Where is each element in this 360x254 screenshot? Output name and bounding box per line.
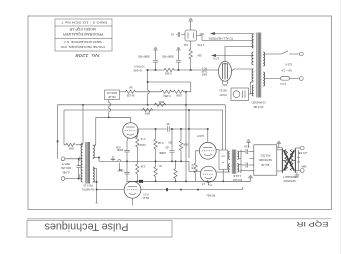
svg-text:115 V: 115 V (285, 63, 292, 67)
border frame of schematic sheet (28, 16, 332, 210)
svg-text:B+245: B+245 (133, 69, 141, 73)
resistor R2b (172, 90, 184, 93)
ground above network box (277, 141, 282, 147)
V3 plate wire to T3 (216, 171, 229, 173)
wire C5 onward to V2 grid (170, 128, 208, 130)
svg-text:6X4: 6X4 (222, 83, 227, 87)
svg-text:Pulse Techniques: Pulse Techniques (44, 221, 128, 233)
wire bus to R9 (155, 161, 157, 165)
T2 secondary winding group 1 (263, 52, 264, 66)
vertical to input transformer primary top (82, 105, 84, 144)
svg-text:240K: 240K (144, 112, 150, 115)
svg-text:25MF: 25MF (116, 148, 123, 151)
stub below hop (118, 163, 120, 171)
svg-text:4.5H: 4.5H (244, 144, 249, 147)
svg-text:CHANGED: CHANGED (252, 100, 266, 104)
resistor R1 (124, 90, 136, 93)
lattice attenuator right bar (294, 148, 296, 172)
V3 grid dashed (203, 173, 214, 175)
svg-text:.1M: .1M (119, 168, 123, 170)
svg-text:BRIDGED-T: BRIDGED-T (282, 175, 296, 178)
resistor R3 in upper feedback wire (154, 103, 167, 106)
svg-text:12AX7: 12AX7 (138, 143, 146, 146)
faint scanned page edge (340, 0, 342, 254)
svg-text:PE-W3u: PE-W3u (206, 193, 215, 195)
wire J1 to T1 primary (65, 158, 83, 160)
wire network box to lattice (upper) (277, 149, 283, 151)
V2 plate bar (203, 146, 212, 148)
V4 top pin wire to transformer (225, 47, 252, 62)
B+ rail wire (146, 69, 219, 71)
V1 plate pin down to resistor chain (134, 129, 137, 137)
T3 secondary bus (239, 150, 241, 174)
wire resistor to B+ rail (190, 60, 192, 70)
wire network box to lattice top (277, 147, 283, 149)
interstage transformer T3 core (232, 150, 236, 174)
svg-text:7H: 7H (221, 161, 224, 163)
line switch SW1 wire (265, 53, 300, 55)
T2 secondary winding group 2 (263, 72, 264, 86)
resistor R20 vertical (189, 48, 192, 60)
resistor R10 vertical (180, 129, 182, 140)
cathode bypass capacitor C3 (124, 150, 129, 152)
wire tube to transformer plate tap (232, 69, 252, 71)
resistor R21 in B+ rail (163, 68, 175, 71)
V1b cathode (129, 193, 137, 194)
svg-text:5600: 5600 (182, 143, 188, 146)
grid wire to V1 (96, 117, 131, 123)
T1 primary winding (81, 144, 82, 182)
svg-text:MODEL EQP-1R: MODEL EQP-1R (69, 27, 96, 31)
ground below network box (248, 175, 253, 181)
svg-text:6.3 V: 6.3 V (143, 193, 149, 195)
line terminal circle (switch side) (299, 52, 303, 56)
power transformer T2 core (257, 33, 261, 98)
svg-text:(LAB): (LAB) (62, 171, 69, 175)
svg-text:0.25M: 0.25M (164, 94, 171, 97)
svg-text:NE-51: NE-51 (219, 89, 227, 93)
V2 grid dashed (202, 150, 214, 152)
input terminal J1 (61, 157, 65, 161)
electrolytic capacitor C6 (171, 129, 173, 150)
pilot lamp assembly box (231, 88, 249, 101)
svg-text:3.3K: 3.3K (140, 165, 145, 168)
T1 lower tap to shield vertical (94, 181, 96, 183)
V4 internal plates (222, 63, 227, 80)
lattice series resistor right (290, 150, 293, 171)
tube V1 envelope (123, 123, 139, 139)
svg-text:1M: 1M (129, 85, 132, 88)
wire R2b to right bus (184, 91, 190, 93)
T3 primary winding upper (228, 151, 229, 159)
heater supply wire with arrow (top) (211, 33, 252, 35)
tube V2 envelope (199, 142, 216, 159)
svg-text:EQP IR: EQP IR (296, 220, 328, 227)
svg-text:X40F: X40F (201, 73, 207, 75)
coupling capacitor C5 plates (167, 126, 169, 131)
svg-text:2 5TA: 2 5TA (197, 43, 204, 47)
wire network box to lattice (lower) (277, 170, 283, 172)
feedback wire upper (long) (58, 104, 226, 106)
T3 secondary winding upper (237, 151, 238, 159)
output terminal J4 (300, 169, 304, 173)
ground above rectifier box (188, 19, 193, 23)
wire T2 to pilot lamp box (249, 82, 254, 94)
tube V1b envelope (124, 181, 141, 198)
svg-text:100MF: 100MF (158, 151, 166, 153)
V1b grid wire to shield line (97, 189, 125, 191)
pilot lamp bulb (233, 91, 240, 98)
svg-text:10M: 10M (116, 146, 121, 148)
wire C8 to network box (249, 164, 254, 166)
left feedback loop vertical (inner) (63, 110, 65, 145)
T3 secondary winding lower (237, 164, 238, 172)
svg-text:No. 1208: No. 1208 (75, 53, 100, 58)
V1b bottom stem (132, 198, 134, 205)
V2 plate wire to B2 (216, 149, 219, 151)
T1 secondary tap junction dot (98, 157, 99, 158)
junction dots on wires (155, 128, 156, 129)
V2 left pin wire (196, 151, 200, 153)
B2 bottom stub to rail (222, 170, 224, 182)
resistor R5 (500K) (64, 143, 83, 146)
heater rail from V1b to output section (141, 187, 243, 191)
V2 grid pin riser (207, 129, 209, 142)
wire J2 to T1 primary (65, 178, 83, 180)
wire from rectifier box to transformer (197, 36, 252, 41)
title block box (55, 19, 112, 51)
fuse wire (265, 77, 300, 79)
filter capacitor C21 with ground (176, 48, 181, 52)
lattice attenuator left bar (281, 148, 283, 172)
svg-text:12AX7: 12AX7 (196, 134, 204, 137)
wire B1 to R1 (120, 91, 125, 93)
svg-text:+20: +20 (165, 146, 170, 149)
svg-text:MU METAL: MU METAL (81, 188, 94, 191)
resistor R2a (161, 90, 173, 93)
T1 secondary mid tap wire (93, 157, 99, 159)
series capacitor at rectifier input (176, 32, 185, 37)
input transformer T1 core (86, 142, 90, 184)
svg-text:PE-1R: PE-1R (108, 95, 115, 98)
svg-text:PROGRAM EQUALIZER: PROGRAM EQUALIZER (62, 32, 103, 36)
wire C4 to bottom rail (126, 174, 128, 181)
strap between output terminals (297, 150, 300, 171)
T1 secondary lower taps (93, 169, 95, 183)
V1 cathode (127, 134, 135, 135)
wire R6 to R7 (136, 148, 138, 163)
svg-text:0.005: 0.005 (164, 72, 171, 76)
V3 plate bar (204, 170, 213, 172)
svg-text:15K: 15K (197, 54, 202, 58)
svg-text:FU-1: FU-1 (280, 82, 286, 86)
output wire upper (295, 147, 300, 149)
svg-text:WEST ENGLEWOOD, N.J.: WEST ENGLEWOOD, N.J. (63, 40, 101, 44)
tap down to cathode bus (98, 158, 100, 162)
svg-text:MOD 2-B: MOD 2-B (107, 91, 117, 94)
wire down from tap corner (95, 117, 97, 144)
feedback return vertical right outer (224, 105, 226, 150)
V3 bottom pin (208, 182, 212, 185)
bottom rule line (27, 218, 332, 220)
T1 secondary top tap wire (93, 144, 96, 147)
T1 secondary winding lower (93, 167, 95, 182)
svg-text:-22: -22 (170, 32, 174, 36)
lattice mid stubs (282, 160, 295, 162)
svg-text:W-12B: W-12B (126, 93, 134, 96)
T1 primary tap marks (78, 157, 80, 179)
svg-text:PE-14: PE-14 (142, 196, 149, 198)
V3 cathode (205, 177, 212, 178)
switch lever (282, 51, 289, 54)
T2 left tap stubs (252, 34, 254, 94)
junction dots on B+ rail (155, 69, 156, 70)
svg-text:20MF 450: 20MF 450 (138, 55, 150, 59)
svg-text:NETWORK: NETWORK (283, 179, 296, 182)
svg-text:360K: 360K (158, 100, 164, 103)
capacitor C7 plates (246, 149, 248, 154)
resistor R7 vertical (136, 163, 139, 175)
resistor R8 vertical (155, 129, 157, 138)
svg-text:450: 450 (199, 32, 204, 36)
svg-text:20MF 450: 20MF 450 (162, 55, 174, 59)
branch wire at y=82 to right (148, 82, 191, 92)
svg-text:PILOT: PILOT (219, 93, 227, 97)
resistor R9 vertical (154, 166, 157, 178)
capacitor C4 (124, 172, 129, 174)
svg-text:TO PIN 4: TO PIN 4 (134, 65, 145, 68)
heater supply wire with arrow (lower) (212, 55, 252, 57)
series capacitor across input (76, 159, 80, 179)
feedback return vertical right inner (222, 110, 224, 150)
T1 secondary winding upper (93, 146, 95, 159)
rectifier tube V4 envelope (219, 61, 232, 81)
V1b plate bar (128, 186, 137, 188)
Pulse Techniques logo box (27, 220, 172, 237)
T2 primary winding group 3 (252, 69, 254, 81)
lattice X arms (284, 150, 295, 170)
V1 cathode pin down (126, 138, 129, 150)
line terminal circle (fuse side) (299, 77, 303, 81)
output terminal J3 (300, 146, 304, 150)
svg-text:25V: 25V (168, 141, 173, 143)
svg-text:TO ALL HEATERS: TO ALL HEATERS (209, 36, 234, 40)
hop over EQ wire (148, 90, 150, 93)
output wire lower (295, 169, 300, 171)
B+ branch vertical down to EQ (147, 70, 149, 105)
junction dots EQ (82, 104, 83, 105)
svg-text:1K: 1K (158, 164, 161, 167)
wire R7 to bottom rail (136, 175, 138, 181)
tube V3 envelope (200, 166, 216, 182)
resistor R11 vertical with stubs (195, 153, 197, 162)
svg-text:470K: 470K (191, 164, 194, 170)
V3 left pin wire (189, 161, 200, 171)
svg-text:+15 DB: +15 DB (298, 151, 308, 155)
svg-text:NETWORK: NETWORK (258, 158, 272, 162)
resistor R12 vertical (175, 161, 177, 167)
V1 grid (dashed) (125, 130, 137, 132)
hop over upper feedback wire (109, 103, 111, 106)
svg-text:EQ-1R: EQ-1R (261, 163, 269, 167)
svg-text:INPUT: INPUT (62, 162, 70, 166)
wire stem from ground to rectifier box (190, 23, 192, 30)
equalizer network box NB (254, 145, 277, 175)
right bus vertical (outer) (185, 92, 187, 182)
svg-text:180K: 180K (176, 94, 182, 97)
cathode bus wire (99, 160, 189, 162)
T2 primary winding group 4 (252, 85, 253, 96)
wire from rectifier bottom (190, 41, 192, 48)
svg-text:7A1P: 7A1P (201, 70, 207, 73)
svg-text:PE-5-16: PE-5-16 (83, 183, 93, 186)
lattice series resistor left (285, 150, 288, 171)
wire hop on cathode bus (118, 160, 121, 162)
V2 cathode (204, 154, 212, 155)
svg-text:2MA: 2MA (301, 165, 307, 169)
T2 primary winding group 1 (252, 34, 253, 48)
bottom rail (127, 180, 251, 182)
fuse F1 (281, 77, 290, 80)
svg-text:PCT-W3: PCT-W3 (232, 178, 242, 181)
filter capacitor C20 with ground (153, 48, 158, 52)
hop over lower feedback wire (109, 108, 111, 111)
ground on cathode bus (111, 157, 116, 161)
svg-text:0.1M: 0.1M (158, 141, 163, 144)
resistor R4 in lower feedback wire (142, 108, 154, 111)
shield wire from T1 lower tap (94, 169, 97, 204)
feedback wire lower (long) (64, 109, 223, 111)
ground at output low side (295, 172, 300, 178)
capacitor C8 plates (246, 163, 248, 168)
resistor R6 vertical (136, 136, 139, 148)
coupling box B2 (219, 150, 228, 170)
V1b grid dashed (127, 189, 139, 191)
vertical from B1 down (108, 100, 110, 118)
svg-text:2-1/2-B: 2-1/2-B (233, 174, 241, 177)
wire C7 to network box (249, 151, 254, 153)
V4 side pin wires (222, 81, 227, 85)
svg-text:500K: 500K (68, 147, 74, 150)
left feedback loop vertical (outer) (57, 105, 59, 159)
T2 primary winding group 2 (252, 52, 254, 65)
wire T3 bus to coupling cap C7 (241, 151, 245, 153)
svg-text:600-150: 600-150 (61, 166, 71, 170)
wire T3 bus to network box lower (241, 170, 254, 172)
input terminal J2 (61, 177, 65, 181)
wire C3 to C4 (126, 152, 128, 172)
dark label blob (139, 180, 143, 183)
svg-text:7A1: 7A1 (183, 43, 188, 47)
plate wire V1 to coupling network (138, 128, 166, 130)
T3 primary winding lower (228, 164, 229, 172)
network feed stubs (250, 158, 254, 160)
wire R1 to R2a (136, 91, 160, 93)
V1 plate bar (126, 126, 135, 128)
svg-text:PU-1: PU-1 (201, 67, 207, 69)
boost control box B1 (105, 90, 120, 100)
wire T3 bus to cap C8 (241, 164, 245, 166)
selenium rectifier SR1 box (185, 30, 197, 41)
svg-text:PULSE TECHNIQUES, INC.: PULSE TECHNIQUES, INC. (59, 45, 104, 49)
right bus vertical (inner) (188, 110, 190, 158)
svg-text:DWG 2 - 1/2 SCH No 7: DWG 2 - 1/2 SCH No 7 (60, 20, 107, 23)
svg-text:60 ~ CA: 60 ~ CA (281, 68, 291, 72)
svg-text:PULTEC: PULTEC (260, 154, 270, 158)
svg-text:PCT-2B: PCT-2B (253, 105, 263, 109)
svg-text:4.7K: 4.7K (140, 137, 145, 140)
svg-text:6.3 V: 6.3 V (213, 57, 219, 61)
ground at T3 shield (246, 140, 251, 148)
